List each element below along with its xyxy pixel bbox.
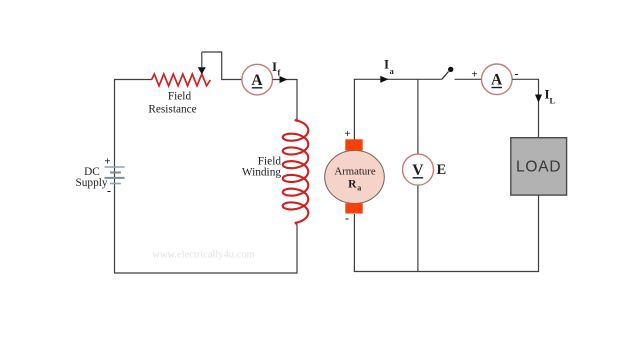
- svg-text:+: +: [344, 128, 350, 140]
- battery + mark: [104, 156, 110, 168]
- svg-text:Armature: Armature: [334, 165, 376, 177]
- resistor field resistance (rheostat zigzag): [152, 74, 211, 86]
- label Field Winding: [242, 156, 281, 179]
- label DC Supply: [75, 166, 107, 189]
- wire wiper bracket: [202, 52, 242, 80]
- label A2 minus: [515, 67, 519, 81]
- label IL: [545, 87, 556, 106]
- svg-text:-: -: [515, 67, 519, 81]
- arrow Ia: [380, 76, 388, 83]
- svg-text:I: I: [272, 59, 277, 74]
- voltmeter V1: [403, 154, 434, 185]
- svg-text:www.electrically4u.com: www.electrically4u.com: [152, 250, 255, 261]
- svg-text:Field: Field: [168, 91, 192, 103]
- inductor field winding coil: [283, 119, 309, 225]
- svg-text:-: -: [107, 184, 111, 198]
- wire left-loop left vertical top: [114, 80, 116, 274]
- motor armature M1: [325, 139, 385, 213]
- svg-text:A: A: [491, 72, 503, 89]
- wire armature branch top: [353, 79, 355, 140]
- wire A1 to field winding: [273, 79, 298, 81]
- watermark www.electrically4u.com: [152, 250, 255, 261]
- armature + mark: [344, 128, 350, 140]
- svg-text:Winding: Winding: [242, 167, 281, 179]
- ammeter A1: [242, 64, 273, 95]
- svg-text:I: I: [384, 57, 389, 72]
- wire switch to A2: [455, 78, 482, 80]
- ammeter A2: [482, 64, 513, 95]
- label Field Resistance: [148, 91, 196, 116]
- arrow If: [280, 76, 288, 83]
- label Ia: [384, 57, 395, 77]
- wire left-loop right vertical upper: [296, 80, 298, 120]
- resistor LOAD box: [511, 138, 567, 195]
- wire right-loop top left segment: [354, 78, 442, 80]
- battery B1 (DC supply): [105, 167, 125, 184]
- armature - mark: [345, 211, 349, 225]
- wire left-loop top: [114, 79, 152, 81]
- svg-text:-: -: [345, 211, 349, 225]
- svg-text:f: f: [278, 68, 281, 78]
- wire A2 to load corner: [512, 79, 538, 138]
- svg-text:Supply: Supply: [75, 177, 107, 189]
- svg-text:L: L: [550, 96, 556, 106]
- svg-text:A: A: [251, 72, 263, 89]
- svg-text:+: +: [471, 69, 477, 81]
- label E: [436, 162, 446, 178]
- wire load bottom: [538, 195, 540, 272]
- svg-text:+: +: [104, 156, 110, 168]
- label If: [272, 59, 281, 78]
- wire voltmeter branch bottom: [417, 185, 419, 271]
- arrow IL: [535, 95, 542, 103]
- svg-text:a: a: [357, 184, 361, 193]
- svg-text:LOAD: LOAD: [516, 159, 561, 176]
- label A2 plus: [471, 69, 477, 81]
- svg-text:a: a: [390, 66, 395, 76]
- svg-text:E: E: [436, 162, 446, 178]
- svg-text:R: R: [348, 178, 357, 190]
- wire armature branch bottom: [353, 214, 355, 272]
- wire left-loop bottom: [114, 272, 297, 274]
- wire left-loop right vertical lower: [296, 225, 298, 274]
- svg-text:Resistance: Resistance: [148, 104, 196, 116]
- wire right-loop bottom: [354, 271, 539, 273]
- wire voltmeter branch top: [417, 79, 419, 154]
- rheostat wiper arrow: [198, 52, 206, 74]
- battery - mark: [107, 184, 111, 198]
- switch S1: [442, 67, 454, 80]
- svg-text:V: V: [412, 162, 424, 179]
